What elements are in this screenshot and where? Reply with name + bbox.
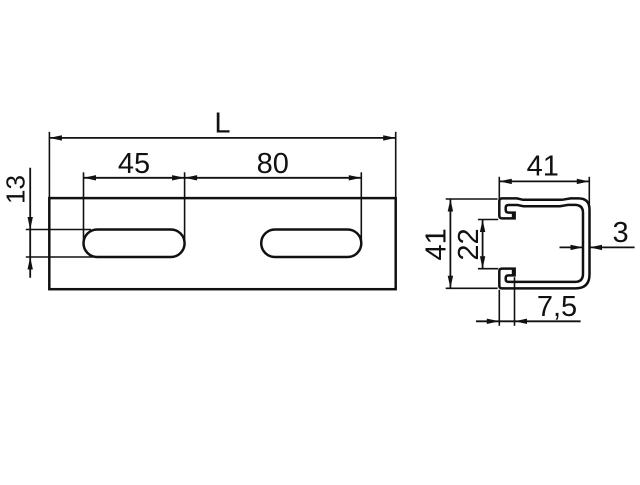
arrowheads 45 xyxy=(84,175,97,180)
arrowheads 80 xyxy=(185,175,198,180)
dim 7,5: line xyxy=(476,320,581,322)
arrowheads 3 (outside pointing inward) xyxy=(571,245,584,250)
arrowheads 41 left xyxy=(448,199,453,212)
svg-text:22: 22 xyxy=(453,228,485,260)
dimension 45/80: line xyxy=(84,177,362,179)
dim 22: line xyxy=(482,220,484,269)
dim 22: extension lines xyxy=(478,219,498,221)
svg-text:80: 80 xyxy=(257,148,289,180)
arrowheads 13 (outside, pointing inward) xyxy=(28,217,33,230)
arrowheads 22 xyxy=(480,220,485,233)
svg-text:13: 13 xyxy=(1,175,31,204)
svg-text:7,5: 7,5 xyxy=(537,291,577,323)
svg-text:L: L xyxy=(214,108,230,140)
arrowheads L xyxy=(49,135,62,140)
dim 3: lines xyxy=(560,246,584,248)
dimension L: extension lines xyxy=(48,132,50,198)
top lip tip (solid) xyxy=(512,212,516,220)
slot 1 xyxy=(84,230,185,258)
dim 7,5: extension lines xyxy=(498,290,500,326)
dim 41 top: line xyxy=(499,180,589,182)
slot 2 xyxy=(261,230,361,258)
dim 41 left: extension lines xyxy=(446,198,498,200)
dim 41 top: extension lines xyxy=(498,177,500,201)
dimension 13: extension lines xyxy=(26,229,91,231)
dimension 13: line xyxy=(29,168,31,278)
dimension 80: right extension line xyxy=(360,172,362,240)
svg-text:41: 41 xyxy=(527,150,559,182)
svg-text:3: 3 xyxy=(613,217,629,249)
arrowheads 7,5 (outside pointing inward) xyxy=(487,319,500,324)
dimension L: line xyxy=(49,137,395,139)
plate outline xyxy=(49,198,395,289)
svg-text:41: 41 xyxy=(421,228,453,260)
dimension 45: extension lines xyxy=(83,172,85,240)
arrowheads 41 top xyxy=(499,179,512,184)
profile outline xyxy=(499,198,589,288)
bottom lip tip (solid) xyxy=(512,268,516,276)
svg-text:45: 45 xyxy=(118,148,150,180)
dim 41 left: line xyxy=(449,199,451,288)
